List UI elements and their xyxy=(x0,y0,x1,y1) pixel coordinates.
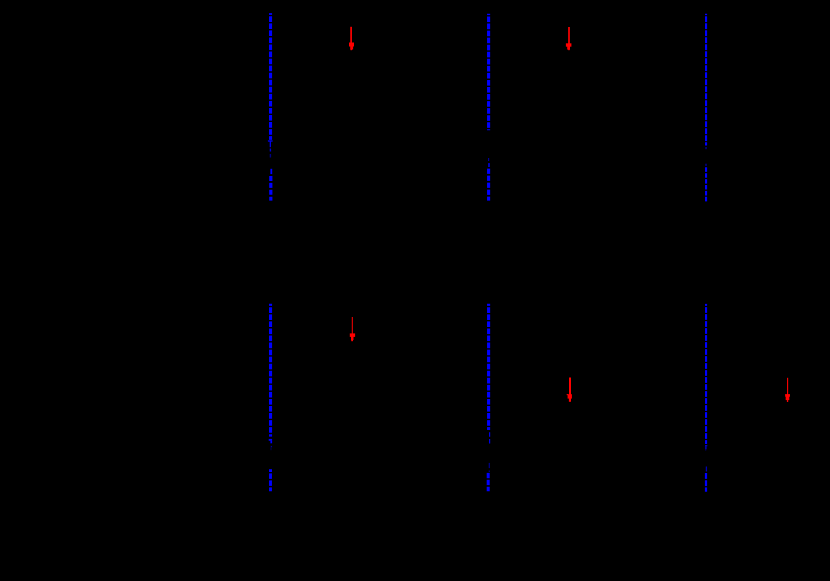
branch B1 row 2: blue dashed branch line, upper segment xyxy=(269,304,272,437)
branch B2 row 2: faint dashes behind component xyxy=(488,463,490,472)
branch B2 row 2: lower dashed segment xyxy=(487,473,490,491)
branch B1 row 2: lead dash of lower segment xyxy=(269,469,272,472)
branch B3 row 2: thin lead dash of lower segment xyxy=(705,467,707,472)
branch B1 row 1: blue dashed branch line, upper segment xyxy=(269,13,272,140)
branch B1 row 2: lower dashed segment xyxy=(269,473,272,491)
branch B3 row 1: faint dashes behind component xyxy=(705,147,707,166)
branch B2 row 1: lower dashed segment xyxy=(487,169,490,201)
current arrow I1 (red, downward) xyxy=(349,27,354,50)
branch B1 row 1: arrowhead bar remnant xyxy=(268,141,273,147)
branch B2 row 2: thin dashed continuation behind component xyxy=(489,432,491,443)
branch B3 row 2: arrowhead bar remnant ("7" mark) xyxy=(705,446,707,451)
branch B1 row 2: faint dashes behind component xyxy=(270,446,272,450)
current arrow I4 (red, downward) xyxy=(567,378,572,402)
branch B3 row 2: blue dashed branch line, upper segment xyxy=(705,304,707,444)
branch B3 row 1: blue dashed branch line, upper segment xyxy=(705,14,707,146)
branch B2 row 1: blue dashed branch line, upper segment xyxy=(487,14,490,131)
branch B1 row 1: faint dashes behind component xyxy=(269,149,271,158)
branch B1 row 1: tapered lead of lower segment xyxy=(270,169,272,174)
current arrow I2 (red, downward) xyxy=(566,27,572,50)
branch B1 row 1: lower dashed segment xyxy=(269,176,272,201)
branch B3 row 1: lower dashed segment xyxy=(705,167,707,201)
current arrow I3 (red, downward) xyxy=(350,317,355,341)
branch B2 row 2: blue dashed branch line, upper segment xyxy=(487,304,490,430)
branch B2 row 1: faint dashes behind component xyxy=(488,158,490,167)
branch B3 row 2: lower dashed segment xyxy=(705,473,707,492)
current arrow I5 (red, downward) xyxy=(785,378,790,402)
branch B1 row 2: arrowhead bar remnant ("7" mark) xyxy=(269,440,272,443)
